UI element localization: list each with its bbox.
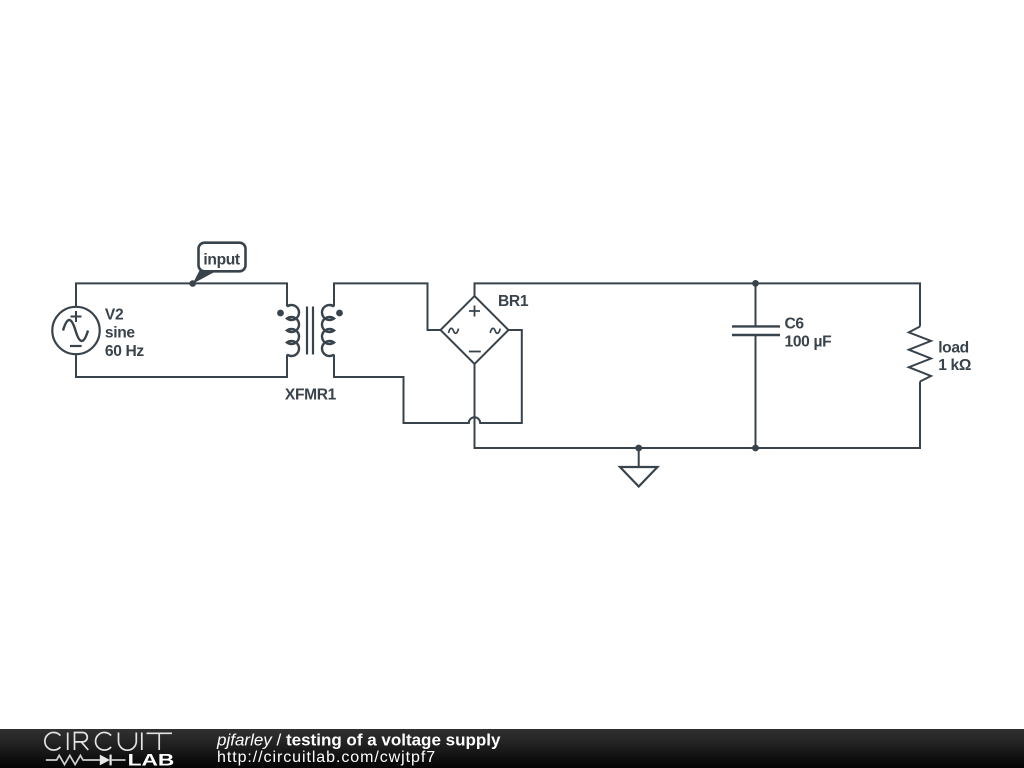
capacitor C6 plates bbox=[732, 326, 780, 335]
svg-text:http://circuitlab.com/cwjtpf7: http://circuitlab.com/cwjtpf7 bbox=[217, 749, 436, 766]
wire primary top: V2 top to XFMR1 primary top bbox=[76, 283, 287, 307]
wire ground stub bbox=[638, 448, 640, 467]
bridge rectifier BR1 diamond bbox=[441, 296, 509, 364]
wire capacitor C6 bottom lead bbox=[755, 335, 757, 448]
svg-text:LAB: LAB bbox=[128, 751, 175, 768]
svg-text:V2: V2 bbox=[105, 307, 124, 324]
transformer XFMR1 primary coil bbox=[287, 305, 299, 356]
label load 1 kOhm bbox=[938, 339, 971, 374]
label C6 100 uF bbox=[785, 315, 832, 350]
node dot input bbox=[189, 280, 196, 287]
wire secondary bottom with hop over BR1 minus wire bbox=[334, 330, 522, 423]
transformer XFMR1 primary phase dot bbox=[277, 310, 284, 317]
logo resistor-diode glyph bbox=[46, 755, 100, 764]
svg-text:60 Hz: 60 Hz bbox=[105, 343, 145, 360]
junction dot bottom rail at C6 bbox=[752, 445, 759, 452]
svg-text:100 µF: 100 µF bbox=[785, 334, 832, 351]
resistor load zigzag bbox=[909, 327, 931, 382]
svg-text:1 kΩ: 1 kΩ bbox=[938, 357, 971, 374]
BR1 minus terminal mark bbox=[469, 351, 481, 353]
BR1 ac mark right bbox=[490, 328, 500, 333]
node flag input bbox=[193, 243, 246, 284]
voltage source V2 bbox=[52, 307, 99, 354]
wire BR1 plus output top rail to load bbox=[475, 283, 921, 326]
BR1 plus terminal mark bbox=[469, 306, 480, 317]
transformer XFMR1 secondary coil bbox=[322, 305, 334, 356]
svg-text:sine: sine bbox=[105, 325, 135, 342]
svg-text:C6: C6 bbox=[785, 315, 805, 332]
wire secondary top: XFMR1 secondary top to BR1 left vertex bbox=[334, 283, 441, 330]
wire capacitor C6 top lead bbox=[755, 283, 757, 326]
label V2 sine 60 Hz bbox=[105, 307, 145, 361]
junction dot bottom rail at ground bbox=[635, 445, 642, 452]
logo CIRCUIT wordmark bbox=[45, 732, 172, 750]
ground symbol bbox=[620, 467, 658, 487]
wire primary bottom: V2 bottom to XFMR1 primary bottom bbox=[76, 354, 287, 377]
BR1 ac mark left bbox=[449, 328, 459, 333]
junction dot top rail at C6 bbox=[752, 280, 759, 287]
svg-text:load: load bbox=[938, 339, 969, 356]
svg-text:BR1: BR1 bbox=[498, 293, 529, 310]
transformer XFMR1 secondary phase dot bbox=[336, 310, 343, 317]
svg-text:XFMR1: XFMR1 bbox=[285, 387, 337, 404]
svg-text:input: input bbox=[203, 252, 240, 269]
svg-text:pjfarley / testing of a voltag: pjfarley / testing of a voltage supply bbox=[216, 730, 501, 749]
transformer XFMR1 core bbox=[307, 307, 313, 355]
wire BR1 minus output bottom rail to load bbox=[475, 364, 921, 448]
